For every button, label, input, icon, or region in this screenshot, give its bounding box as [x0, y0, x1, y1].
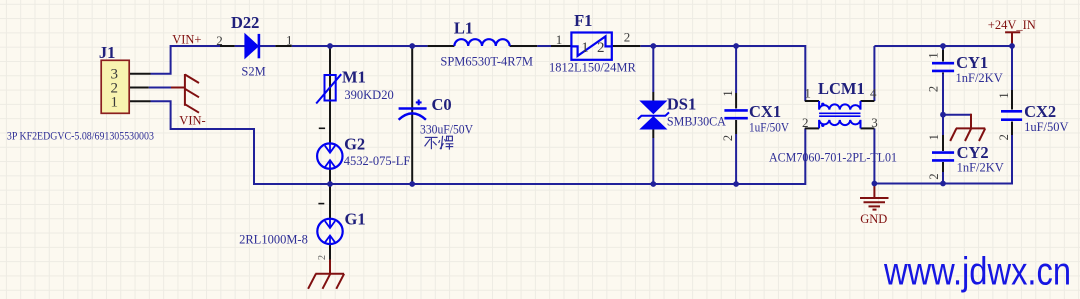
- svg-text:LCM1: LCM1: [818, 79, 865, 98]
- svg-text:4: 4: [870, 86, 877, 101]
- svg-text:3P KF2EDGVC-5.08/691305530003: 3P KF2EDGVC-5.08/691305530003: [7, 128, 154, 142]
- svg-text:1: 1: [111, 95, 119, 111]
- svg-text:www.jdwx.cn: www.jdwx.cn: [883, 251, 1071, 294]
- svg-text:1uF/50V: 1uF/50V: [1024, 120, 1068, 134]
- svg-text:390KD20: 390KD20: [344, 88, 393, 102]
- svg-text:1: 1: [286, 32, 293, 47]
- svg-text:CY1: CY1: [956, 53, 988, 72]
- svg-text:1: 1: [804, 86, 811, 101]
- svg-text:3: 3: [871, 115, 878, 130]
- svg-text:G2: G2: [344, 135, 365, 154]
- svg-text:1uF/50V: 1uF/50V: [749, 121, 789, 135]
- svg-text:2: 2: [721, 135, 735, 141]
- svg-text:4532-075-LF: 4532-075-LF: [344, 154, 411, 168]
- svg-text:330uF/50V: 330uF/50V: [420, 123, 473, 137]
- svg-text:+24V_IN: +24V_IN: [988, 18, 1036, 32]
- svg-text:2: 2: [997, 134, 1011, 140]
- svg-text:C0: C0: [432, 95, 452, 114]
- svg-text:1812L150/24MR: 1812L150/24MR: [549, 61, 636, 75]
- svg-text:2: 2: [317, 255, 328, 260]
- svg-text:1: 1: [997, 92, 1011, 98]
- svg-text:CX1: CX1: [749, 102, 781, 121]
- svg-text:S2M: S2M: [241, 65, 265, 79]
- svg-text:CY2: CY2: [957, 143, 989, 162]
- svg-text:1: 1: [581, 40, 589, 56]
- svg-text:ACM7060-701-2PL-TL01: ACM7060-701-2PL-TL01: [769, 151, 897, 165]
- svg-text:2: 2: [927, 86, 941, 92]
- svg-text:L1: L1: [454, 19, 473, 38]
- svg-text:SPM6530T-4R7M: SPM6530T-4R7M: [440, 55, 533, 69]
- svg-text:1: 1: [721, 90, 735, 96]
- svg-text:2: 2: [802, 115, 809, 130]
- svg-text:1: 1: [927, 52, 941, 58]
- svg-text:J1: J1: [99, 43, 116, 62]
- svg-text:2: 2: [624, 30, 631, 45]
- svg-text:1nF/2KV: 1nF/2KV: [957, 161, 1004, 175]
- svg-text:1nF/2KV: 1nF/2KV: [956, 71, 1003, 85]
- svg-text:G1: G1: [345, 210, 366, 229]
- svg-text:2: 2: [927, 173, 941, 179]
- svg-text:VIN+: VIN+: [172, 33, 201, 47]
- svg-text:D22: D22: [231, 13, 259, 32]
- svg-text:CX2: CX2: [1024, 102, 1056, 121]
- svg-text:SMBJ30CA: SMBJ30CA: [667, 115, 726, 129]
- svg-text:VIN-: VIN-: [179, 114, 205, 128]
- svg-text:GND: GND: [860, 212, 887, 226]
- svg-text:DS1: DS1: [667, 95, 696, 114]
- svg-text:2RL1000M-8: 2RL1000M-8: [239, 233, 308, 247]
- svg-text:1: 1: [556, 32, 563, 47]
- svg-text:2: 2: [597, 40, 605, 56]
- svg-text:1: 1: [927, 134, 941, 140]
- svg-text:M1: M1: [342, 68, 366, 87]
- svg-text:2: 2: [216, 33, 223, 48]
- svg-text:F1: F1: [574, 11, 592, 30]
